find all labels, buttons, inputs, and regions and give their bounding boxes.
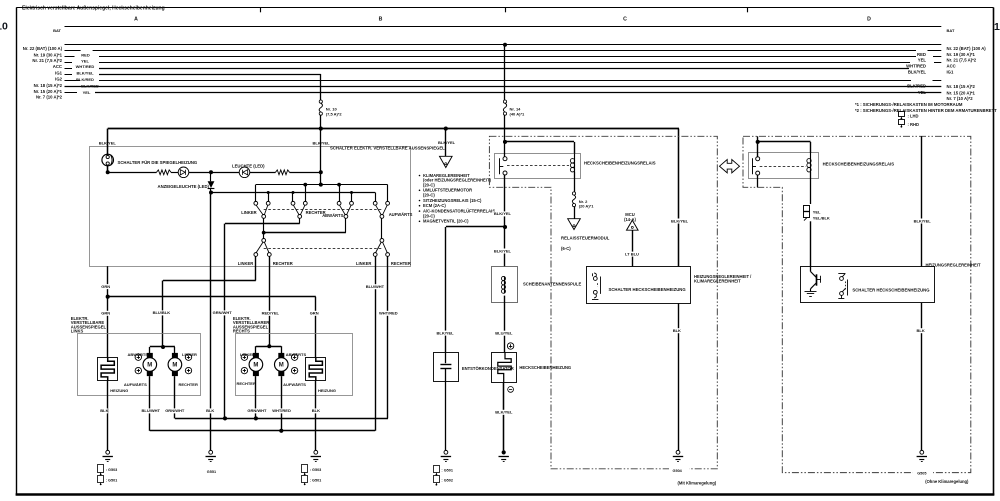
svg-text:: G503: : G503 <box>310 468 322 472</box>
svg-text:BLK: BLK <box>673 328 681 333</box>
svg-text:Nr. 7 (10 A)*2: Nr. 7 (10 A)*2 <box>947 96 974 101</box>
svg-text:IG2: IG2 <box>55 77 62 82</box>
svg-text:(40 A)*1: (40 A)*1 <box>510 111 526 116</box>
svg-text:RECHTER: RECHTER <box>391 261 411 266</box>
svg-text:: G502: : G502 <box>441 479 453 483</box>
svg-text:YEL: YEL <box>81 58 89 63</box>
svg-text:RECHTER: RECHTER <box>179 382 198 387</box>
svg-text:G551: G551 <box>207 470 216 474</box>
svg-text:BLK/RED: BLK/RED <box>81 84 99 89</box>
svg-text:RECHTS: RECHTS <box>233 329 250 334</box>
svg-text:BLK/YEL: BLK/YEL <box>76 71 94 76</box>
svg-text:BLU/WHT: BLU/WHT <box>142 408 161 413</box>
svg-text:: RHD: : RHD <box>908 122 920 127</box>
svg-text:(Ohne Klimaregelung): (Ohne Klimaregelung) <box>925 479 969 484</box>
svg-text:SCHALTER FÜR DIE SPIEGELHEIZUN: SCHALTER FÜR DIE SPIEGELHEIZUNG <box>118 160 198 165</box>
svg-text:YEL: YEL <box>813 210 821 215</box>
svg-text:MAGNETVENTIL (20-C): MAGNETVENTIL (20-C) <box>423 219 469 224</box>
svg-text:C: C <box>623 16 627 22</box>
svg-text:BLK/YEL: BLK/YEL <box>495 410 513 415</box>
svg-text:BLK/YEL: BLK/YEL <box>313 141 331 146</box>
svg-text:BLK/RED: BLK/RED <box>76 77 94 82</box>
svg-text:: LHD: : LHD <box>908 114 919 119</box>
svg-text:WHT/RED: WHT/RED <box>272 408 291 413</box>
svg-text:: G501: : G501 <box>106 478 118 482</box>
svg-text:ANZEIGELEUCHTE (LED): ANZEIGELEUCHTE (LED) <box>158 184 210 189</box>
svg-text:B: B <box>379 16 383 22</box>
svg-text:D: D <box>867 16 871 22</box>
svg-text:(14-A): (14-A) <box>624 217 636 222</box>
svg-text:LT BLU: LT BLU <box>625 251 639 256</box>
svg-text:BLK/YEL: BLK/YEL <box>671 218 689 223</box>
svg-text:ACC: ACC <box>53 64 62 69</box>
svg-text:G504: G504 <box>673 469 683 473</box>
svg-text:: G503: : G503 <box>106 468 118 472</box>
svg-text:GRN: GRN <box>101 284 110 289</box>
svg-text:(7,5 A)*2: (7,5 A)*2 <box>326 111 343 116</box>
svg-text:RELAISSTEUERMODUL: RELAISSTEUERMODUL <box>561 235 610 240</box>
svg-text:*2 : SICHERUNGS-/RELAISKASTEN: *2 : SICHERUNGS-/RELAISKASTEN HINTER DEM… <box>855 108 997 113</box>
svg-text:RECHTER: RECHTER <box>273 261 293 266</box>
svg-text:SCHEIBENANTENNENSPULE: SCHEIBENANTENNENSPULE <box>523 281 581 286</box>
svg-text:BLU/BLK: BLU/BLK <box>153 310 171 315</box>
svg-text:ABWÄRTS: ABWÄRTS <box>128 352 149 357</box>
svg-text:YEL/BLK: YEL/BLK <box>813 215 830 220</box>
svg-text:AUFWÄRTS: AUFWÄRTS <box>389 212 413 217</box>
svg-text:GRN: GRN <box>310 311 319 316</box>
svg-text:BLU/WHT: BLU/WHT <box>366 284 385 289</box>
svg-text:BLK/YEL: BLK/YEL <box>908 70 927 75</box>
svg-text:HECKSCHEIBENHEIZUNGSRELAIS: HECKSCHEIBENHEIZUNGSRELAIS <box>584 161 656 166</box>
svg-text:Nr. 7 (10 A)*2: Nr. 7 (10 A)*2 <box>36 95 63 100</box>
svg-text:Nr. 22 (BAT) (100 A): Nr. 22 (BAT) (100 A) <box>23 46 63 51</box>
svg-text:*1 : SICHERUNGS-/RELAISKASTEN: *1 : SICHERUNGS-/RELAISKASTEN IM MOTORRA… <box>855 102 963 107</box>
svg-text:M: M <box>253 363 258 369</box>
svg-text:Nr. 15 (20 A)*1: Nr. 15 (20 A)*1 <box>34 89 63 94</box>
svg-text:GRN: GRN <box>101 311 110 316</box>
svg-text:BLK/YEL: BLK/YEL <box>914 218 932 223</box>
svg-text:WHT/RED: WHT/RED <box>906 64 926 69</box>
svg-text:ECM (2A-C): ECM (2A-C) <box>423 203 446 208</box>
svg-text:Nr. 19 (30 A)*1: Nr. 19 (30 A)*1 <box>34 52 63 57</box>
svg-text:BLK: BLK <box>917 328 925 333</box>
svg-text:RECHTER: RECHTER <box>237 381 256 386</box>
svg-text:HEIZUNG: HEIZUNG <box>318 388 336 393</box>
svg-text:BAT: BAT <box>947 28 955 33</box>
svg-text:BLU/YEL: BLU/YEL <box>495 331 513 336</box>
svg-text:: G501: : G501 <box>441 469 453 473</box>
svg-text:BLK: BLK <box>312 408 320 413</box>
svg-text:RED/YEL: RED/YEL <box>262 311 280 316</box>
svg-text:: G501: : G501 <box>310 478 322 482</box>
svg-text:ENTSTÖRKONDENSATOR: ENTSTÖRKONDENSATOR <box>462 366 514 371</box>
svg-text:Elektrisch verstellbare Außens: Elektrisch verstellbare Außenspiegel, He… <box>22 5 165 11</box>
svg-text:LINKER: LINKER <box>238 261 253 266</box>
svg-text:SCHALTER HECKSCHEIBENHEIZUNG: SCHALTER HECKSCHEIBENHEIZUNG <box>852 288 930 293</box>
svg-text:ACC: ACC <box>947 64 956 69</box>
svg-text:YEL: YEL <box>918 90 927 95</box>
svg-text:HECKSCHEIBENHEIZUNGSRELAIS: HECKSCHEIBENHEIZUNGSRELAIS <box>823 161 895 166</box>
svg-text:M: M <box>172 363 177 369</box>
svg-text:ABWÄRTS: ABWÄRTS <box>286 352 307 357</box>
svg-text:Nr. 19 (30 A)*1: Nr. 19 (30 A)*1 <box>947 52 976 57</box>
svg-text:LINKER: LINKER <box>240 352 255 357</box>
svg-text:IG1: IG1 <box>55 70 62 75</box>
svg-text:WHT/RED: WHT/RED <box>379 311 398 316</box>
svg-text:LEUCHTE (LED): LEUCHTE (LED) <box>232 164 265 169</box>
svg-text:GRN/WHT: GRN/WHT <box>247 408 267 413</box>
svg-text:KLIMAREGLEREINHEIT: KLIMAREGLEREINHEIT <box>694 279 741 284</box>
svg-text:RED: RED <box>81 53 90 58</box>
svg-text:Nr. 18 (15 A)*2: Nr. 18 (15 A)*2 <box>34 83 63 88</box>
svg-text:AUFWÄRTS: AUFWÄRTS <box>283 382 306 387</box>
svg-text:(20 A)*1: (20 A)*1 <box>579 204 595 209</box>
svg-text:LINKER: LINKER <box>241 210 256 215</box>
svg-text:SCHALTER ELEKTR. VERSTELLBARE: SCHALTER ELEKTR. VERSTELLBARE AUSSENSPIE… <box>330 145 445 150</box>
svg-text:RED: RED <box>917 52 926 57</box>
svg-text:LINKS: LINKS <box>71 329 84 334</box>
svg-text:HECKSCHEIBENHEIZUNG: HECKSCHEIBENHEIZUNG <box>519 365 571 370</box>
svg-text:BLK/YEL: BLK/YEL <box>494 211 512 216</box>
svg-text:YEL: YEL <box>918 58 927 63</box>
svg-text:AUFWÄRTS: AUFWÄRTS <box>124 382 147 387</box>
svg-text:SCHALTER HECKSCHEIBENHEIZUNG: SCHALTER HECKSCHEIBENHEIZUNG <box>609 287 687 292</box>
svg-text:Nr. 18 (15 A)*2: Nr. 18 (15 A)*2 <box>947 84 976 89</box>
svg-text:YEL: YEL <box>83 90 91 95</box>
svg-text:(6-C): (6-C) <box>561 246 571 251</box>
svg-text:A: A <box>134 16 138 22</box>
svg-text:Nr. 15 (20 A)*1: Nr. 15 (20 A)*1 <box>947 90 976 95</box>
svg-text:ABWÄRTS: ABWÄRTS <box>322 213 343 218</box>
svg-text:BLK/YEL: BLK/YEL <box>437 330 455 335</box>
svg-text:GRN/WHT: GRN/WHT <box>213 310 233 315</box>
svg-text:HEIZUNGSREGLEREINHEIT: HEIZUNGSREGLEREINHEIT <box>926 263 981 268</box>
svg-text:BLK/RED: BLK/RED <box>907 84 926 89</box>
svg-text:BLK: BLK <box>100 408 108 413</box>
svg-text:11: 11 <box>994 21 1000 33</box>
svg-text:BLK: BLK <box>206 408 214 413</box>
svg-text:BLK/YEL: BLK/YEL <box>438 140 456 145</box>
svg-text:10: 10 <box>0 21 8 33</box>
svg-text:Nr. 21 (7,5 A)*2: Nr. 21 (7,5 A)*2 <box>32 58 62 63</box>
svg-text:GRN/WHT: GRN/WHT <box>165 408 185 413</box>
svg-text:IG1: IG1 <box>947 70 954 75</box>
svg-text:BLK/YEL: BLK/YEL <box>494 248 512 253</box>
svg-text:M: M <box>147 363 152 369</box>
svg-text:Nr. 22 (BAT) (100 A): Nr. 22 (BAT) (100 A) <box>947 46 987 51</box>
svg-text:(Mit Klimaregelung): (Mit Klimaregelung) <box>678 480 717 485</box>
svg-text:BAT: BAT <box>53 28 61 33</box>
svg-text:LINKER: LINKER <box>182 352 197 357</box>
svg-text:M: M <box>279 363 284 369</box>
svg-text:G505: G505 <box>917 471 926 475</box>
svg-text:Nr. 21 (7,5 A)*2: Nr. 21 (7,5 A)*2 <box>947 58 977 63</box>
svg-text:WHT/RED: WHT/RED <box>76 64 95 69</box>
svg-text:LINKER: LINKER <box>356 261 371 266</box>
svg-text:HEIZUNG: HEIZUNG <box>110 388 128 393</box>
